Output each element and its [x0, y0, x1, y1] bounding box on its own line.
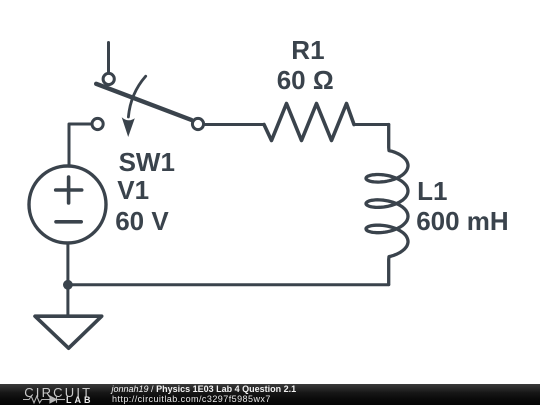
label 60 V	[115, 208, 169, 234]
logo waveform resistor+diode	[23, 395, 65, 404]
wire: bottom rail	[68, 283, 389, 286]
wire: node to ground symbol	[66, 285, 69, 315]
switch SW1 arrowhead	[122, 117, 135, 137]
wire: left contact to voltage source top	[69, 124, 92, 165]
switch SW1 blade	[96, 84, 191, 120]
resistor R1	[264, 104, 354, 141]
wire: switch right contact to resistor	[205, 123, 265, 126]
voltage source V1 plus sign	[56, 177, 82, 203]
ground	[35, 316, 102, 348]
logo LAB	[66, 395, 94, 405]
switch SW1 right contact circle	[192, 118, 203, 129]
inductor L1	[366, 125, 408, 285]
label 600 mH	[416, 208, 509, 234]
footer title line 1	[112, 385, 297, 394]
voltage source V1 minus sign	[56, 220, 81, 224]
footer url line 2	[112, 395, 271, 404]
label L1	[417, 178, 447, 204]
wire: resistor to top right corner	[354, 123, 389, 126]
switch SW1 left contact circle	[92, 118, 103, 129]
footer bar	[0, 384, 540, 405]
node: junction dot	[63, 280, 73, 290]
wire: switch top stub	[107, 43, 110, 72]
switch SW1 actuation arrow arc	[128, 76, 145, 117]
voltage source V1	[29, 166, 106, 243]
CircuitLab logo CIRCUIT	[24, 385, 92, 400]
voltage source V1 body circle	[29, 166, 106, 243]
label V1	[117, 177, 149, 203]
switch SW1	[92, 43, 204, 138]
label SW1	[119, 149, 175, 175]
switch SW1 top contact circle	[103, 73, 114, 84]
label R1	[291, 37, 324, 63]
wire: source bottom to ground node	[66, 243, 69, 285]
label 60 Ω	[277, 67, 334, 93]
